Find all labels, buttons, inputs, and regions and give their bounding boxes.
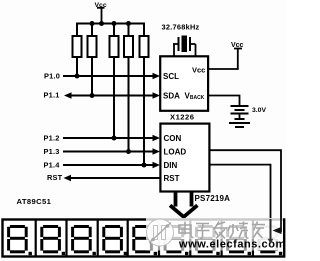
IC U2 PS7219A box bbox=[160, 124, 209, 192]
svg-text:SDA: SDA bbox=[163, 91, 180, 100]
junction dot on bus at VCC stem bbox=[99, 21, 104, 26]
svg-text:AT89C51: AT89C51 bbox=[17, 197, 52, 206]
7-segment digit 8 bbox=[226, 225, 251, 255]
7-segment digit 9 bbox=[258, 225, 283, 255]
resistor R2 bbox=[88, 23, 97, 96]
junction dot R4/P1.3 bbox=[126, 149, 131, 154]
svg-text:PS7219A: PS7219A bbox=[195, 194, 231, 203]
7-segment digit 4 bbox=[102, 225, 127, 255]
arrowhead toward P1.1 bbox=[64, 92, 72, 98]
7-segment digit 7 bbox=[195, 225, 220, 255]
arrowhead into SDA bbox=[153, 92, 161, 98]
svg-text:P1.4: P1.4 bbox=[44, 160, 61, 169]
junction dot R1/P1.0 bbox=[75, 74, 80, 79]
wire P1.1 to SDA bbox=[67, 95, 157, 97]
svg-text:DIN: DIN bbox=[164, 161, 178, 170]
svg-text:Vcc: Vcc bbox=[192, 65, 205, 74]
7-segment digit 2 bbox=[40, 225, 65, 255]
junction dot R5/P1.4 bbox=[142, 163, 147, 168]
bus arrow PS7219A to display bbox=[170, 192, 197, 217]
crystal Y1 bbox=[173, 36, 196, 57]
arrowhead into LOAD bbox=[153, 148, 161, 154]
svg-text:RST: RST bbox=[164, 174, 180, 183]
7-segment digit 5 bbox=[132, 225, 157, 255]
wire into display (serial data, redraw over watermark) bbox=[270, 219, 272, 241]
junction dot R2/P1.1 bbox=[90, 93, 95, 98]
svg-text:P1.3: P1.3 bbox=[44, 147, 60, 156]
wire PS7219A right pin 1 to display right side bbox=[209, 150, 281, 228]
arrowhead into CON bbox=[153, 135, 161, 141]
wire segment over watermark (right vertical redraw) bbox=[280, 218, 282, 232]
display cell separators bbox=[36, 220, 253, 257]
7-segment digit 6 bbox=[164, 225, 189, 255]
svg-text:CON: CON bbox=[164, 134, 182, 143]
arrowhead into SCL bbox=[153, 73, 161, 79]
wire RST to PS7219A bbox=[66, 177, 160, 179]
resistor R3 bbox=[110, 23, 119, 139]
display DS1 9-digit 7-segment frame bbox=[3, 220, 285, 257]
arrowhead into DIN bbox=[153, 162, 161, 168]
wire PS7219A right pin 2 to display top bbox=[209, 165, 270, 218]
watermark hanzi 子 bbox=[196, 224, 210, 239]
arrowhead into display right (redraw) bbox=[273, 227, 282, 234]
svg-text:X1226: X1226 bbox=[170, 112, 194, 121]
wire Vback pin to battery bbox=[208, 96, 239, 107]
junction dot on bus at R3 bbox=[112, 21, 117, 26]
wire P1.4 to DIN bbox=[63, 164, 157, 166]
power symbol VCC (top-left) bbox=[95, 2, 107, 24]
junction dot on bus at R4 bbox=[126, 21, 131, 26]
watermark hanzi 发 bbox=[213, 222, 227, 239]
svg-text:3.0V: 3.0V bbox=[252, 107, 266, 114]
junction dot on bus at R2 bbox=[90, 21, 95, 26]
arrowhead into display right bbox=[274, 227, 282, 233]
watermark hanzi 友 bbox=[252, 222, 265, 239]
battery BT1 3.0V bbox=[229, 106, 250, 127]
watermark hanzi 烧 bbox=[228, 222, 249, 239]
resistor R1 bbox=[73, 23, 82, 77]
wire: pull-up bus bbox=[76, 23, 145, 25]
resistor R5 bbox=[140, 23, 149, 166]
junction dot R3/P1.2 bbox=[112, 136, 117, 141]
svg-text:RST: RST bbox=[47, 173, 63, 182]
watermark logo circle bbox=[147, 219, 174, 246]
wire P1.2 to CON bbox=[63, 137, 157, 139]
wire P1.0 to SCL bbox=[63, 75, 157, 77]
resistor R4 bbox=[124, 23, 133, 152]
watermark overlay band (url zone) bbox=[146, 239, 283, 251]
svg-text:P1.0: P1.0 bbox=[44, 72, 60, 81]
power symbol VCC (right) bbox=[231, 42, 244, 69]
watermark overlay band (chars zone) bbox=[146, 218, 283, 239]
7-segment digit 1 bbox=[7, 225, 32, 255]
svg-text:SCL: SCL bbox=[163, 72, 179, 81]
wire P1.3 to LOAD bbox=[63, 151, 157, 153]
svg-text:P1.1: P1.1 bbox=[44, 91, 60, 100]
svg-text:32.768kHz: 32.768kHz bbox=[162, 23, 200, 32]
IC U1 X1226 box bbox=[160, 56, 208, 111]
watermark extra wash over cell 9 bbox=[254, 221, 283, 250]
arrowhead toward RST bbox=[64, 175, 72, 181]
wire Vcc pin to VCC symbol bbox=[208, 68, 239, 70]
7-segment digit 3 bbox=[71, 225, 96, 255]
watermark hanzi 电 bbox=[179, 222, 194, 238]
svg-text:P1.2: P1.2 bbox=[44, 134, 60, 143]
svg-text:LOAD: LOAD bbox=[164, 147, 187, 156]
